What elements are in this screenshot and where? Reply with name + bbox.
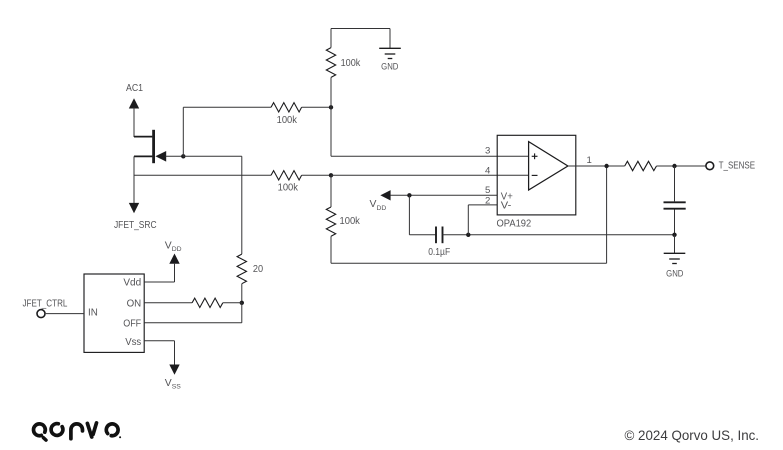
- svg-text:ON: ON: [127, 299, 142, 310]
- pin label Vdd: [123, 278, 141, 289]
- wire R4 to feedback row: [330, 236, 332, 263]
- wire R1 bottom: [330, 77, 332, 107]
- power symbol AC1 arrow: [129, 98, 139, 137]
- wire R2 to node: [302, 106, 331, 108]
- power symbol VDD arrow opamp: [380, 190, 390, 200]
- label VDD opamp: [370, 199, 387, 212]
- pin label ON: [127, 299, 142, 310]
- wire pin5 row: [390, 194, 497, 196]
- wire down to GND right: [674, 235, 676, 254]
- node R2/R1 junction: [329, 105, 333, 109]
- svg-text:OPA192: OPA192: [497, 219, 532, 230]
- node output junction: [604, 164, 608, 168]
- terminal JFET_CTRL circle: [37, 310, 45, 318]
- wire Vdd pin: [144, 264, 174, 282]
- label R3 100k: [278, 182, 299, 193]
- op-amp U1 OPA192 box: [497, 135, 576, 215]
- pin number 5: [485, 185, 490, 196]
- wire Vss pin: [144, 341, 174, 365]
- pin number 1: [587, 155, 592, 166]
- svg-text:20: 20: [253, 264, 263, 275]
- terminal T_SENSE circle: [706, 162, 714, 170]
- node ON/OFF junction: [240, 301, 244, 305]
- label R5 20: [253, 264, 263, 275]
- svg-text:GND: GND: [666, 268, 683, 278]
- wire feedback row: [331, 262, 607, 264]
- svg-text:OFF: OFF: [123, 318, 141, 329]
- pin number 2: [485, 196, 490, 207]
- svg-text:V-: V-: [501, 201, 512, 212]
- svg-text:T_SENSE: T_SENSE: [719, 160, 756, 171]
- svg-text:© 2024 Qorvo US, Inc.: © 2024 Qorvo US, Inc.: [625, 428, 760, 443]
- svg-text:0.1µF: 0.1µF: [428, 247, 450, 258]
- wire feedback up to output node: [606, 166, 608, 263]
- op-amp plus input mark: [532, 153, 538, 159]
- node gate junction: [181, 154, 185, 158]
- wire V+ node down to cap row: [408, 195, 410, 235]
- wire node down to pin3 row: [330, 107, 332, 156]
- svg-text:Vss: Vss: [125, 337, 141, 348]
- op-amp U1 triangle: [529, 142, 568, 190]
- capacitor C1 0.1uF: [436, 227, 443, 244]
- wire pin4 row: [331, 174, 529, 176]
- wire output node down to C2: [674, 166, 676, 201]
- label GND top: [381, 62, 398, 72]
- resistor R2 100k: [271, 103, 302, 112]
- label R4 100k: [340, 216, 361, 227]
- power symbol VSS arrow: [169, 365, 179, 375]
- wire cap row left: [409, 234, 436, 236]
- svg-text:100k: 100k: [341, 58, 361, 69]
- svg-text:Vdd: Vdd: [123, 278, 141, 289]
- resistor R3 100k: [271, 171, 302, 180]
- resistor R7 output: [625, 161, 657, 170]
- svg-text:JFET_SRC: JFET_SRC: [114, 220, 157, 231]
- wire output: [568, 165, 625, 167]
- label R1 100k: [341, 58, 361, 69]
- node V+ junction: [407, 193, 411, 197]
- node inverting input junction: [329, 173, 333, 177]
- wire R5 to node: [241, 284, 243, 303]
- svg-text:JFET_CTRL: JFET_CTRL: [23, 298, 68, 309]
- label VDD driver: [165, 241, 182, 254]
- wire C2 to cap row: [674, 210, 676, 235]
- wire gate top row to R2: [183, 106, 271, 108]
- node output cap junction: [672, 164, 676, 168]
- pin label Vss: [125, 337, 141, 348]
- svg-text:1: 1: [587, 155, 592, 166]
- node C2 bottom junction: [672, 233, 676, 237]
- transistor Q1 JFET: [134, 130, 183, 163]
- copyright text: [625, 428, 760, 443]
- resistor R1 100k: [326, 48, 335, 78]
- wire output to terminal: [657, 165, 706, 167]
- driver box U2: [84, 274, 144, 352]
- svg-text:2: 2: [485, 196, 490, 207]
- wire V- vertical: [467, 205, 469, 235]
- pin number 4: [485, 165, 491, 176]
- wire gate node to 20-ohm column: [183, 155, 242, 157]
- wire cap row right: [443, 234, 675, 236]
- ground GND top: [379, 48, 401, 58]
- resistor R4 100k: [326, 207, 335, 236]
- wire R6 to node: [223, 302, 242, 304]
- label AC1: [126, 83, 143, 94]
- svg-text:IN: IN: [88, 308, 98, 319]
- wire node down to R4: [330, 175, 332, 207]
- pin label V-: [501, 201, 512, 212]
- svg-text:100k: 100k: [340, 216, 361, 227]
- label GND right: [666, 268, 683, 278]
- ground GND right: [664, 253, 686, 263]
- label C1 0.1uF: [428, 247, 450, 258]
- svg-text:100k: 100k: [278, 182, 299, 193]
- svg-text:AC1: AC1: [126, 83, 143, 94]
- svg-text:100k: 100k: [277, 115, 298, 126]
- wire gate row down to R5: [241, 156, 243, 254]
- label JFET_SRC: [114, 220, 157, 231]
- wire R3 to node: [302, 174, 331, 176]
- capacitor C2: [664, 202, 686, 208]
- svg-text:GND: GND: [381, 62, 398, 72]
- label OPA192: [497, 219, 532, 230]
- pin number 3: [485, 145, 490, 156]
- pin label OFF: [123, 318, 141, 329]
- label R2 100k: [277, 115, 298, 126]
- op-amp minus input mark: [532, 174, 538, 176]
- power symbol JFET_SRC arrow: [129, 156, 139, 213]
- resistor R5 20: [237, 254, 246, 284]
- wire JFET_CTRL to box: [46, 313, 84, 315]
- wire ON pin: [144, 302, 192, 304]
- label T_SENSE: [719, 160, 756, 171]
- Qorvo logo: [34, 423, 122, 440]
- wire R1 top to GND corner: [331, 29, 390, 49]
- power symbol VDD arrow driver: [169, 254, 179, 264]
- svg-text:3: 3: [485, 145, 490, 156]
- pin label V+: [501, 191, 513, 202]
- wire OFF pin: [144, 303, 242, 323]
- svg-text:5: 5: [485, 185, 490, 196]
- wire gate node up: [182, 107, 184, 157]
- pin label IN: [88, 308, 98, 319]
- node V- junction: [466, 233, 470, 237]
- label JFET_CTRL: [23, 298, 68, 309]
- svg-text:4: 4: [485, 165, 491, 176]
- resistor R6: [192, 298, 223, 307]
- wire pin2 row: [468, 204, 497, 206]
- label VSS: [165, 378, 181, 391]
- wire pin3 row: [331, 155, 529, 157]
- wire source to R3: [134, 174, 271, 176]
